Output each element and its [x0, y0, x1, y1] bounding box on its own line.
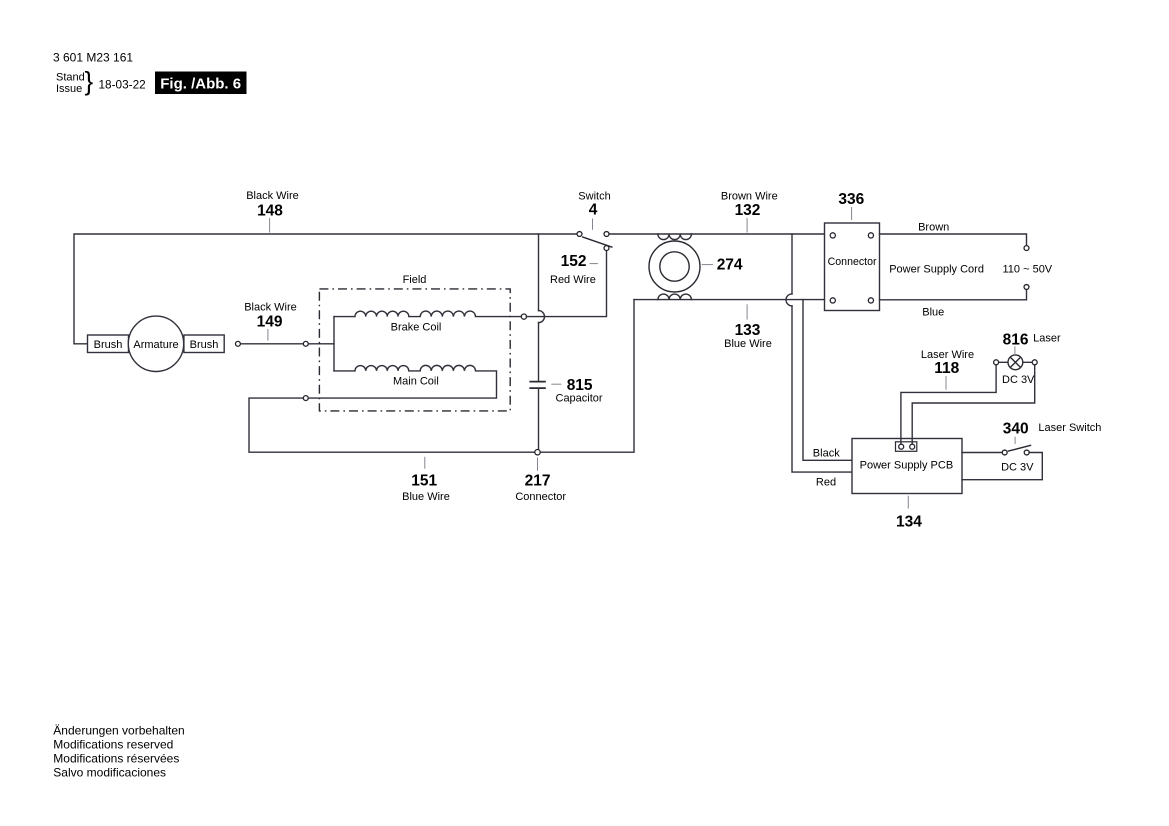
- svg-text:Stand: Stand: [56, 72, 85, 84]
- terminal node armature output: [235, 341, 240, 346]
- svg-text:Änderungen vorbehalten: Änderungen vorbehalten: [53, 723, 184, 737]
- suppressor coil 274 top winding: [658, 234, 692, 240]
- wire: blue wire 151 bottom loop: [249, 300, 634, 453]
- label 336: [838, 191, 864, 220]
- svg-text:148: 148: [257, 203, 283, 220]
- svg-text:Switch: Switch: [578, 190, 610, 202]
- stand/issue date label: [56, 66, 146, 96]
- wire: red feed to PCB lower: [792, 306, 852, 472]
- terminal node main coil output: [303, 396, 308, 401]
- pcb laser connector pin right: [910, 444, 915, 449]
- terminal node cord brown: [1024, 246, 1029, 251]
- wire hop: red feed over blue wire 133: [786, 294, 792, 306]
- brush (right): [184, 335, 224, 353]
- svg-text:Black Wire: Black Wire: [244, 302, 297, 314]
- label 815 Capacitor: [551, 377, 603, 405]
- svg-text:3 601 M23 161: 3 601 M23 161: [53, 51, 133, 65]
- connector 217 node on bottom wire: [535, 450, 540, 455]
- connector 336 pin bottom-left: [830, 298, 835, 303]
- wire: blue wire 133 toroid to connector: [634, 299, 825, 301]
- svg-text:Laser: Laser: [1033, 333, 1061, 345]
- svg-text:Blue Wire: Blue Wire: [402, 491, 450, 503]
- connector 336 pin top-left: [830, 233, 835, 238]
- figure label Fig./Abb. 6: [155, 72, 247, 95]
- svg-text:Salvo modificaciones: Salvo modificaciones: [53, 766, 166, 780]
- wire: field input bus: [333, 317, 335, 371]
- svg-text:Connector: Connector: [515, 491, 566, 503]
- svg-text:151: 151: [411, 472, 437, 489]
- laser switch 340 right contact: [1024, 450, 1029, 455]
- laser switch 340 left contact: [1002, 450, 1007, 455]
- label Switch 4: [578, 190, 610, 230]
- svg-text:Field: Field: [403, 274, 427, 286]
- svg-text:815: 815: [567, 377, 593, 394]
- svg-text:274: 274: [717, 257, 743, 274]
- field dashed box: [319, 289, 510, 411]
- svg-text:Main Coil: Main Coil: [393, 376, 439, 388]
- wire: black feed to PCB: [803, 300, 852, 461]
- svg-text:152: 152: [561, 253, 587, 270]
- label 151 Blue Wire: [402, 457, 450, 503]
- svg-text:110 ~ 50V: 110 ~ 50V: [1003, 264, 1053, 276]
- svg-text:Red: Red: [816, 477, 836, 489]
- label 133 Blue Wire: [724, 304, 772, 350]
- switch 4 lower contact: [604, 246, 609, 251]
- wire: red feed to PCB upper: [791, 234, 793, 294]
- inductor: brake coil: [334, 311, 521, 317]
- terminal node field input: [303, 341, 308, 346]
- terminal node brake coil output: [521, 314, 526, 319]
- svg-text:DC 3V: DC 3V: [1002, 374, 1035, 386]
- wire: laser wire 118 right branch: [912, 365, 1034, 444]
- svg-text:340: 340: [1003, 421, 1029, 438]
- svg-text:118: 118: [934, 360, 959, 377]
- label 152 Red Wire: [550, 253, 598, 286]
- wire: black wire 149 armature to field: [240, 343, 334, 345]
- power supply PCB 134 box: [852, 439, 962, 494]
- svg-text:Brake Coil: Brake Coil: [391, 321, 442, 333]
- wire: laser switch loop: [962, 453, 1042, 480]
- label 217 Connector: [515, 458, 566, 503]
- svg-text:DC 3V: DC 3V: [1001, 461, 1034, 473]
- svg-text:18-03-22: 18-03-22: [99, 78, 146, 92]
- wire: capacitor branch upper segment: [538, 234, 540, 311]
- wire: capacitor branch middle segment: [538, 323, 540, 381]
- wire: laser wire 118 left branch: [901, 365, 996, 444]
- pcb laser connector box: [896, 442, 917, 452]
- tick 340: [1014, 437, 1016, 444]
- laser terminal right: [1032, 360, 1037, 365]
- svg-text:Modifications reserved: Modifications reserved: [53, 737, 173, 751]
- suppressor coil 274 bottom winding: [658, 294, 692, 300]
- label Black Wire 148: [246, 190, 299, 232]
- tick 134: [907, 496, 909, 509]
- laser switch 340 arm: [1008, 445, 1031, 451]
- label Black Wire 149: [244, 302, 297, 341]
- svg-text:4: 4: [589, 202, 598, 219]
- svg-text:336: 336: [838, 191, 864, 208]
- svg-text:}: }: [85, 66, 94, 96]
- laser terminal left: [994, 360, 999, 365]
- footer disclaimer text: [53, 723, 184, 779]
- label Brown Wire 132: [721, 191, 778, 233]
- tick 816: [1014, 346, 1016, 355]
- suppressor coil 274 toroid outer ring: [649, 241, 700, 292]
- label 274: [702, 257, 743, 274]
- wire: brown wire 132 after switch to connector: [609, 233, 825, 235]
- wire: black wire 148 top loop: [74, 234, 577, 344]
- svg-text:Black Wire: Black Wire: [246, 190, 299, 202]
- armature M1: [128, 316, 183, 371]
- laser lamp 816: [1008, 355, 1023, 370]
- svg-text:134: 134: [896, 513, 922, 530]
- svg-text:Brush: Brush: [190, 339, 219, 351]
- svg-text:Red Wire: Red Wire: [550, 274, 596, 286]
- connector 336 pin bottom-right: [868, 298, 873, 303]
- brush (left): [88, 335, 129, 353]
- switch 4 left contact: [577, 232, 582, 237]
- svg-text:Brown Wire: Brown Wire: [721, 191, 778, 203]
- svg-text:Capacitor: Capacitor: [556, 392, 603, 404]
- suppressor coil 274 toroid inner ring: [660, 252, 689, 281]
- switch 4 right contact: [604, 232, 609, 237]
- svg-text:Laser Switch: Laser Switch: [1038, 422, 1101, 434]
- svg-text:Fig. /Abb. 6: Fig. /Abb. 6: [160, 76, 241, 93]
- svg-text:Brown: Brown: [918, 221, 949, 233]
- svg-text:133: 133: [735, 322, 761, 339]
- svg-text:Power Supply Cord: Power Supply Cord: [889, 264, 984, 276]
- wire: power supply cord brown: [880, 234, 1027, 246]
- svg-text:816: 816: [1003, 331, 1029, 348]
- svg-text:Connector: Connector: [828, 256, 877, 268]
- svg-text:149: 149: [257, 313, 283, 330]
- svg-text:Blue Wire: Blue Wire: [724, 338, 772, 350]
- svg-text:132: 132: [735, 202, 761, 219]
- tick 118: [945, 376, 947, 390]
- svg-text:Issue: Issue: [56, 83, 82, 95]
- connector 336 box: [825, 223, 880, 311]
- wire: power supply cord blue: [880, 289, 1027, 299]
- terminal node cord blue: [1024, 285, 1029, 290]
- svg-text:Armature: Armature: [133, 339, 178, 351]
- svg-text:Brush: Brush: [94, 339, 123, 351]
- wire: laser lamp leads: [999, 361, 1033, 363]
- connector 336 pin top-right: [868, 233, 873, 238]
- svg-text:217: 217: [525, 472, 551, 489]
- svg-text:Black: Black: [813, 447, 840, 459]
- svg-text:Power Supply PCB: Power Supply PCB: [860, 459, 954, 471]
- wire: capacitor branch lower segment: [538, 389, 540, 452]
- capacitor 815 plates: [529, 382, 545, 389]
- wire: red wire 152 brake coil to switch: [527, 251, 607, 317]
- wire hop: capacitor branch over red wire: [539, 311, 545, 323]
- pcb laser connector pin left: [899, 444, 904, 449]
- svg-text:Blue: Blue: [922, 306, 944, 318]
- svg-text:Modifications réservées: Modifications réservées: [53, 751, 179, 765]
- inductor: main coil: [308, 365, 496, 398]
- switch 4 arm: [582, 237, 612, 248]
